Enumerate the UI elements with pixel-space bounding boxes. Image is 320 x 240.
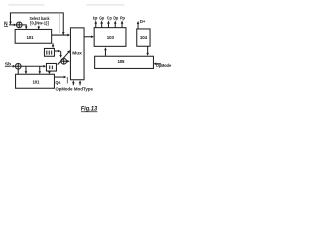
wire block 101 bottom tap into block 111: [52, 43, 55, 48]
adder U3: [15, 63, 21, 69]
wire adder U3 output to block 112: [21, 65, 46, 68]
block 111 (LUT): [44, 48, 54, 56]
wire feedback from block 102 into adder U3: [17, 69, 19, 74]
caption Fig.13: [81, 105, 98, 112]
block 104: [137, 29, 150, 46]
svg-text:Qs: Qs: [55, 80, 61, 85]
wire output arrow Cp: [107, 20, 110, 27]
svg-text:Ip: Ip: [93, 16, 98, 21]
svg-text:D+: D+: [140, 19, 146, 24]
label Select bank [0,(Nw-1)]: [29, 16, 49, 26]
block 103: [94, 28, 126, 47]
wire feedback ghost line: [58, 14, 60, 33]
wire select-bank arrow into block 101: [37, 26, 40, 30]
Mux M1: [70, 28, 84, 80]
adder U2: [61, 58, 67, 64]
svg-text:Sb: Sb: [5, 62, 12, 67]
wire feedback top horizontal: [10, 13, 63, 35]
wire adder U1 output into block 101: [22, 25, 27, 30]
svg-text:105: 105: [117, 59, 125, 64]
svg-text:Pp: Pp: [120, 16, 125, 21]
label Sb input: [5, 62, 12, 67]
N underline: [4, 25, 8, 27]
label Qs: [55, 80, 61, 85]
wire block 112 bottom tap: [48, 71, 51, 74]
svg-text:103: 103: [107, 35, 115, 40]
wire ModType arrow into Mux bottom: [79, 80, 82, 85]
block 102: [16, 74, 55, 88]
wire block 105 up into block 103: [104, 47, 107, 56]
wire feedback drop arrowhead into N junction: [9, 22, 12, 25]
svg-text:Mux: Mux: [72, 50, 82, 55]
svg-text:101: 101: [32, 80, 40, 85]
label OpMode ModType: [55, 87, 93, 93]
block 112: [46, 63, 56, 71]
faint page header marks: [8, 4, 124, 5]
label Ip Gp Cp Dp Pp: [93, 16, 125, 21]
block 101: [15, 29, 52, 43]
svg-text:OpMode: OpMode: [156, 63, 171, 68]
adder U1: [16, 22, 22, 28]
wire output arrow Dp: [114, 20, 117, 27]
wire diagonal from block 112 to Mux: [58, 50, 71, 65]
label OpMode right: [156, 63, 171, 68]
wire Qs output to Mux: [54, 76, 67, 84]
wire block 111 output: [54, 50, 62, 58]
wire output arrow Gp: [100, 20, 103, 27]
wire Sb underline: [5, 66, 11, 68]
svg-text:104: 104: [140, 35, 148, 40]
svg-text:101: 101: [26, 35, 34, 40]
wire tap down into block 102 at x40.5: [38, 66, 41, 74]
wire output arrow D+: [137, 21, 140, 29]
svg-text:Dp: Dp: [113, 16, 118, 21]
svg-text:[0,(Nw-1)]: [0,(Nw-1)]: [30, 20, 49, 25]
label D+: [140, 19, 146, 24]
wire block 104 down into block 105: [146, 46, 149, 56]
wire tap down into block 102 at x25.5: [25, 66, 28, 74]
svg-text:OpMode: OpMode: [55, 87, 72, 93]
wire output arrow Pp: [121, 20, 124, 27]
wire adder U2 output into Mux: [67, 60, 70, 63]
caption underline: [81, 111, 98, 113]
junction arrowhead feedback on wire: [62, 32, 65, 35]
wire Sb arrow into adder U3: [11, 65, 15, 68]
svg-text:Cp: Cp: [107, 16, 112, 21]
block 105: [95, 56, 154, 68]
wire block 101 output to Mux: [52, 34, 70, 37]
wire OpMode arrow into block 105: [154, 62, 161, 65]
wire OpMode arrow into Mux bottom: [72, 80, 75, 85]
svg-text:ModType: ModType: [74, 87, 94, 93]
wire Mux output to block 103: [84, 35, 94, 38]
wire N input arrow: [9, 23, 16, 26]
svg-text:Gp: Gp: [99, 16, 104, 21]
wire output arrow Ip: [94, 20, 97, 27]
node N input label: [4, 21, 8, 27]
